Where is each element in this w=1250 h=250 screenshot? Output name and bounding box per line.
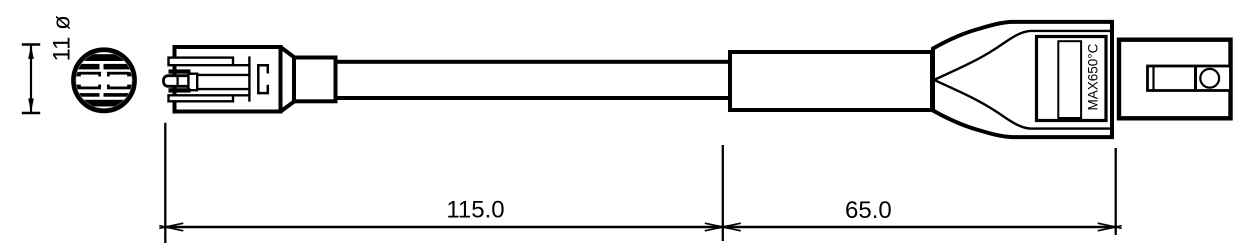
left connector: latch bracket top arm: [258, 65, 268, 73]
dimension 11-dia: top tick: [22, 43, 40, 46]
left connector: chamfer top: [281, 47, 295, 58]
left connector: right interior vertical: [248, 56, 250, 101]
left connector: upper middle stub: [169, 69, 191, 73]
right plug slot divider: [1194, 66, 1197, 91]
svg-text:115.0: 115.0: [446, 197, 504, 224]
boot inner top seam: [935, 31, 1112, 80]
right plug pin circle: [1200, 69, 1219, 88]
probe end-view face: ring gap erasers: [64, 52, 144, 109]
right plug body: [1119, 40, 1231, 119]
left connector: middle lower line: [197, 88, 249, 90]
left connector: blade tip divider: [177, 76, 179, 86]
molded boot outline: [933, 22, 1112, 137]
probe end-view face: inner ring: [77, 53, 131, 107]
dimension 11-dia: bottom tick: [22, 112, 40, 115]
left connector: bottom blade bar: [169, 95, 234, 101]
dimension arrow at 165 pointing left: [159, 223, 183, 231]
cable: [336, 62, 731, 98]
left connector: chamfer bottom: [281, 101, 295, 111]
left connector: center blade tip: [164, 76, 194, 87]
right plug slot left rib: [1152, 66, 1154, 91]
boot label plate: [1037, 37, 1107, 121]
svg-text:11 ø: 11 ø: [49, 15, 76, 62]
svg-text:MAX650°C: MAX650°C: [1085, 43, 1100, 110]
right plug slot: [1148, 66, 1231, 91]
dimension arrow at 723 pointing left: [717, 223, 741, 231]
left connector: latch bracket bottom arm: [258, 85, 268, 93]
boot inner bottom seam: [935, 80, 1112, 128]
extension line right: [1115, 148, 1117, 235]
probe end-view face: blade slot boxes: [71, 72, 136, 89]
probe end-view face: outer circle: [64, 50, 144, 111]
left connector: top blade bar: [169, 58, 234, 66]
dimension arrow at 1116 pointing right: [1098, 223, 1122, 231]
dimension line: [165, 226, 1115, 228]
dimension arrow at 723 pointing right: [705, 223, 729, 231]
left connector: lower middle stub: [169, 88, 191, 92]
svg-text:65.0: 65.0: [845, 197, 892, 224]
extension line left: [164, 123, 166, 243]
boot label window: [1058, 41, 1081, 118]
left connector: bottom inner line: [233, 94, 250, 96]
left connector: top inner line: [233, 64, 250, 66]
left connector: ferrule: [294, 58, 336, 102]
dimension 11-dia: arrow line: [30, 46, 32, 113]
left connector: contact box: [188, 74, 197, 91]
left connector: body: [175, 47, 281, 112]
dimension 11-dia: up arrowhead: [28, 45, 34, 59]
extension line middle: [722, 145, 724, 241]
probe end-view face: grille bands: [70, 54, 138, 106]
probe end-view face: middle channel: [64, 76, 144, 84]
left connector: latch bracket vertical: [257, 64, 260, 94]
left connector: middle upper line: [197, 74, 249, 76]
dimension 11-dia: down arrowhead: [28, 99, 34, 113]
inline block: [730, 52, 932, 110]
